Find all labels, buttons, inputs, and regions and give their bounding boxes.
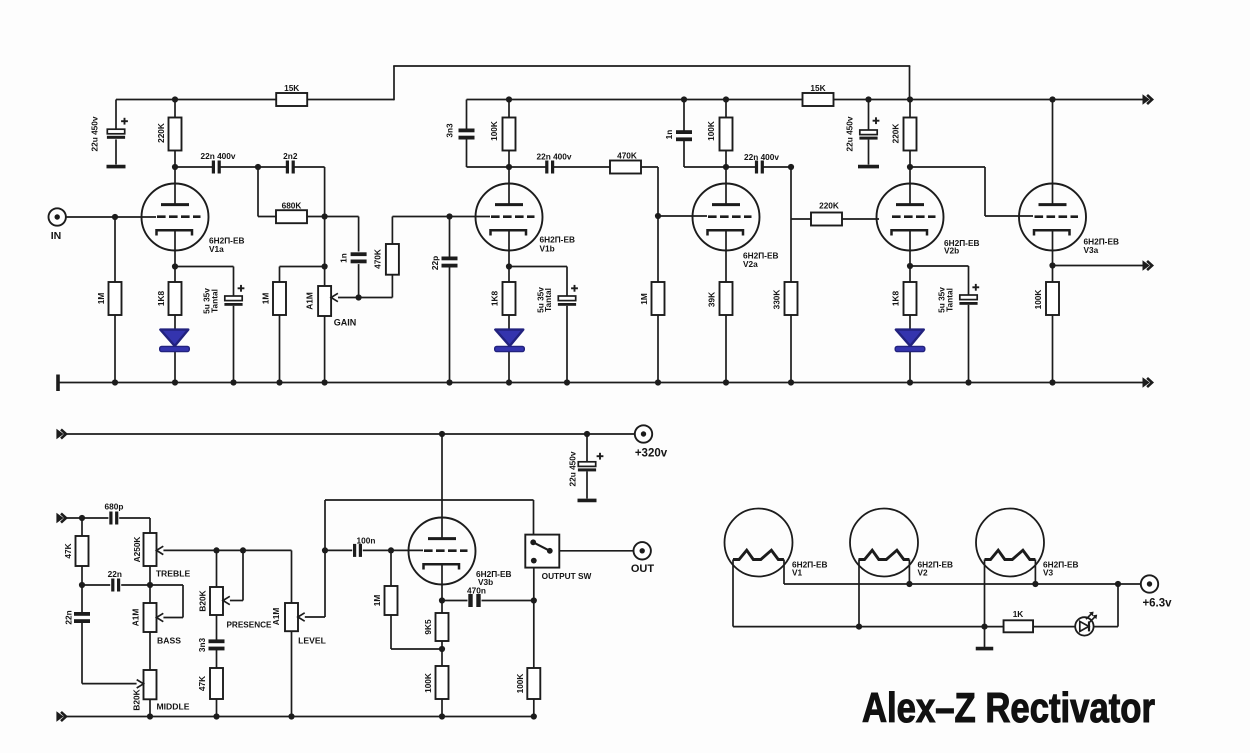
- svg-text:BASS: BASS: [157, 636, 181, 646]
- svg-text:470K: 470K: [617, 151, 637, 161]
- svg-text:15K: 15K: [810, 83, 825, 93]
- svg-text:680p: 680p: [105, 502, 124, 512]
- svg-text:+320v: +320v: [635, 448, 668, 460]
- svg-text:GAIN: GAIN: [334, 318, 357, 328]
- svg-text:1K8: 1K8: [490, 291, 500, 307]
- svg-text:100K: 100K: [706, 121, 716, 141]
- svg-text:Alex–Z Rectivator: Alex–Z Rectivator: [862, 684, 1155, 731]
- svg-text:V1: V1: [792, 568, 803, 578]
- svg-text:V3: V3: [1043, 568, 1054, 578]
- svg-text:Tantal: Tantal: [210, 289, 220, 313]
- svg-text:V2b: V2b: [944, 246, 959, 256]
- svg-text:220K: 220K: [156, 123, 166, 143]
- svg-text:1M: 1M: [261, 293, 271, 305]
- svg-text:MIDDLE: MIDDLE: [157, 702, 190, 712]
- svg-text:1n: 1n: [339, 253, 349, 263]
- svg-text:22n: 22n: [108, 569, 122, 579]
- svg-text:220K: 220K: [819, 201, 839, 211]
- svg-text:V1a: V1a: [209, 244, 224, 254]
- svg-text:V1b: V1b: [540, 244, 555, 254]
- svg-text:100K: 100K: [489, 121, 499, 141]
- svg-text:330K: 330K: [772, 290, 782, 310]
- svg-text:OUT: OUT: [631, 563, 655, 575]
- svg-text:22n 400v: 22n 400v: [200, 151, 235, 161]
- svg-text:Tantal: Tantal: [945, 288, 955, 312]
- svg-text:1M: 1M: [372, 595, 382, 607]
- svg-text:22n 400v: 22n 400v: [536, 152, 571, 162]
- svg-text:47K: 47K: [197, 676, 207, 691]
- svg-text:V2: V2: [918, 568, 929, 578]
- svg-text:1M: 1M: [639, 293, 649, 305]
- svg-text:A250K: A250K: [132, 537, 142, 563]
- svg-text:1M: 1M: [96, 293, 106, 305]
- svg-text:100K: 100K: [1033, 290, 1043, 310]
- svg-text:22n 400v: 22n 400v: [744, 152, 779, 162]
- svg-text:TREBLE: TREBLE: [156, 569, 191, 579]
- svg-text:22u 450v: 22u 450v: [845, 116, 855, 151]
- svg-text:22u 450v: 22u 450v: [568, 451, 578, 486]
- svg-text:OUTPUT SW: OUTPUT SW: [542, 571, 592, 581]
- svg-text:V2a: V2a: [743, 259, 758, 269]
- svg-text:V3a: V3a: [1084, 245, 1099, 255]
- svg-text:15K: 15K: [284, 83, 299, 93]
- svg-text:2n2: 2n2: [283, 151, 298, 161]
- svg-text:B20K: B20K: [132, 689, 142, 710]
- svg-text:1n: 1n: [664, 130, 674, 140]
- svg-text:B20K: B20K: [198, 590, 208, 611]
- svg-text:100n: 100n: [357, 536, 376, 546]
- svg-text:100K: 100K: [423, 673, 433, 693]
- svg-text:680K: 680K: [282, 201, 302, 211]
- svg-text:220K: 220K: [891, 124, 901, 144]
- svg-text:3n3: 3n3: [445, 123, 455, 138]
- svg-text:1K8: 1K8: [156, 291, 166, 307]
- svg-text:3n3: 3n3: [197, 637, 207, 652]
- svg-text:22u 450v: 22u 450v: [90, 116, 100, 151]
- svg-text:22p: 22p: [430, 256, 440, 270]
- svg-text:A1M: A1M: [271, 608, 281, 626]
- svg-text:100K: 100K: [515, 674, 525, 694]
- svg-text:9K5: 9K5: [423, 619, 433, 635]
- svg-text:1K8: 1K8: [891, 291, 901, 307]
- svg-text:A1M: A1M: [131, 609, 141, 627]
- svg-text:39K: 39K: [707, 292, 717, 307]
- svg-text:LEVEL: LEVEL: [298, 636, 326, 646]
- svg-text:IN: IN: [51, 230, 62, 242]
- svg-text:470n: 470n: [467, 586, 486, 596]
- svg-text:Tantal: Tantal: [543, 288, 553, 312]
- svg-text:22n: 22n: [64, 610, 74, 624]
- svg-text:+6.3v: +6.3v: [1142, 598, 1172, 610]
- svg-text:1K: 1K: [1013, 609, 1024, 619]
- svg-text:PRESENCE: PRESENCE: [226, 621, 272, 630]
- svg-text:A1M: A1M: [305, 292, 315, 310]
- svg-text:470K: 470K: [372, 249, 382, 269]
- svg-text:47K: 47K: [63, 543, 73, 558]
